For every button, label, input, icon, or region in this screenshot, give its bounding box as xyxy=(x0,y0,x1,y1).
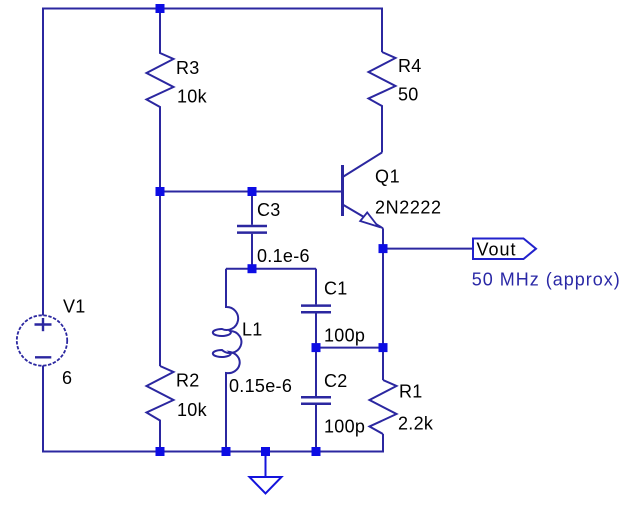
svg-text:0.15e-6: 0.15e-6 xyxy=(229,376,292,396)
node top rail / R3 xyxy=(156,4,165,13)
wire tank top tee xyxy=(226,268,316,270)
node ground xyxy=(261,447,270,456)
node base / R3 bottom xyxy=(156,187,165,196)
wire R1 top lead xyxy=(382,348,384,380)
svg-text:C2: C2 xyxy=(324,371,348,391)
wire C1 to R1 xyxy=(316,347,383,349)
svg-text:100p: 100p xyxy=(324,417,365,437)
port Vout xyxy=(473,239,536,260)
wire ground stub xyxy=(265,452,267,478)
capacitor C2 xyxy=(301,348,331,452)
svg-text:2N2222: 2N2222 xyxy=(375,198,442,218)
svg-text:C3: C3 xyxy=(257,200,281,220)
resistor R1 xyxy=(370,380,397,434)
capacitor C1 xyxy=(301,269,331,348)
node base / C3 top xyxy=(248,187,257,196)
svg-text:R3: R3 xyxy=(176,58,200,78)
wire base rail xyxy=(160,191,341,193)
resistor R2 xyxy=(147,366,174,452)
capacitor C3 xyxy=(237,192,267,269)
wire emitter to Vout xyxy=(383,248,473,250)
svg-text:50: 50 xyxy=(398,85,419,105)
svg-text:50 MHz (approx): 50 MHz (approx) xyxy=(472,270,621,290)
node L1 bottom xyxy=(222,447,231,456)
svg-text:R1: R1 xyxy=(399,382,423,402)
node R2 bottom xyxy=(156,447,165,456)
svg-text:V1: V1 xyxy=(63,297,86,317)
wire bottom rail xyxy=(43,366,383,452)
voltage source V1 xyxy=(17,315,67,365)
transistor Q1 xyxy=(343,153,384,229)
svg-text:0.1e-6: 0.1e-6 xyxy=(257,246,310,266)
svg-text:C1: C1 xyxy=(324,279,348,299)
svg-text:R2: R2 xyxy=(176,371,200,391)
resistor R3 xyxy=(147,9,174,192)
ground xyxy=(250,477,282,494)
node emitter / Vout xyxy=(379,244,388,253)
svg-text:L1: L1 xyxy=(242,320,263,340)
svg-text:2.2k: 2.2k xyxy=(398,414,434,434)
svg-text:100p: 100p xyxy=(324,326,365,346)
wire R2 top lead xyxy=(159,192,161,367)
inductor L1 xyxy=(213,269,242,452)
wire Q1 emitter to R1 xyxy=(382,228,384,347)
svg-text:6: 6 xyxy=(62,368,72,388)
svg-text:R4: R4 xyxy=(398,56,422,76)
svg-text:Vout: Vout xyxy=(477,240,517,260)
svg-text:Q1: Q1 xyxy=(375,167,400,187)
node C2 bottom xyxy=(312,447,321,456)
resistor R4 xyxy=(369,52,396,153)
wire top rail xyxy=(43,9,382,316)
node C3 bottom / tank top xyxy=(248,264,257,273)
node C1 / C2 xyxy=(312,343,321,352)
node R1 top xyxy=(379,343,388,352)
svg-text:10k: 10k xyxy=(177,87,208,107)
svg-text:10k: 10k xyxy=(177,400,208,420)
